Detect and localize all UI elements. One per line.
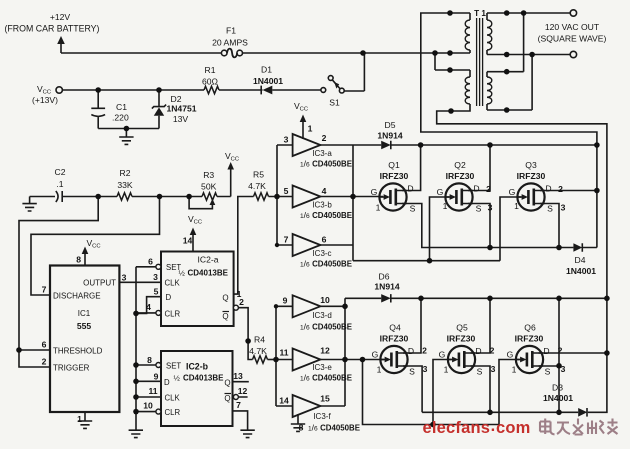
svg-text:CLR: CLR: [165, 310, 181, 319]
svg-text:15: 15: [320, 394, 330, 404]
svg-text:½: ½: [174, 374, 181, 383]
svg-text:33K: 33K: [117, 180, 133, 190]
svg-text:14: 14: [279, 396, 289, 406]
svg-text:D2: D2: [171, 94, 182, 104]
svg-text:IRFZ30: IRFZ30: [380, 334, 409, 344]
svg-text:TRIGGER: TRIGGER: [53, 364, 90, 373]
svg-text:14: 14: [183, 236, 193, 246]
svg-text:IC2-a: IC2-a: [197, 255, 218, 265]
svg-text:D1: D1: [261, 65, 272, 75]
svg-text:IC3-f: IC3-f: [313, 412, 331, 421]
svg-text:120 VAC OUT: 120 VAC OUT: [545, 22, 600, 32]
svg-text:1: 1: [376, 203, 381, 213]
svg-text:SET: SET: [166, 362, 181, 371]
svg-text:1N4751: 1N4751: [166, 104, 196, 114]
svg-text:6: 6: [148, 257, 153, 267]
svg-text:THRESHOLD: THRESHOLD: [53, 347, 103, 356]
svg-text:CD4013BE: CD4013BE: [188, 269, 229, 278]
svg-text:.1: .1: [56, 179, 63, 189]
svg-text:2: 2: [422, 346, 427, 356]
svg-text:D: D: [166, 293, 172, 302]
svg-text:4: 4: [322, 186, 327, 196]
svg-text:S: S: [547, 204, 553, 214]
svg-text:4.7K: 4.7K: [249, 346, 267, 356]
svg-text:1: 1: [77, 414, 82, 424]
svg-text:IC3-c: IC3-c: [312, 249, 331, 258]
svg-text:2: 2: [322, 133, 327, 143]
svg-text:S1: S1: [329, 98, 340, 108]
svg-text:D: D: [473, 184, 479, 194]
svg-text:.220: .220: [112, 113, 129, 123]
svg-text:1: 1: [512, 365, 517, 375]
svg-text:5: 5: [154, 287, 159, 297]
svg-text:D5: D5: [385, 120, 396, 130]
svg-text:3: 3: [561, 364, 566, 374]
svg-text:R2: R2: [120, 168, 131, 178]
svg-text:S: S: [410, 204, 416, 214]
svg-text:1N914: 1N914: [377, 131, 403, 141]
svg-text:20 AMPS: 20 AMPS: [212, 38, 248, 48]
svg-text:IC3-d: IC3-d: [312, 311, 332, 320]
svg-text:Q4: Q4: [389, 323, 401, 333]
svg-text:D: D: [475, 346, 481, 356]
svg-text:R4: R4: [254, 335, 265, 345]
svg-text:1: 1: [443, 201, 448, 211]
svg-text:OUTPUT: OUTPUT: [83, 279, 116, 288]
svg-text:2: 2: [42, 357, 47, 367]
svg-text:D3: D3: [552, 383, 563, 393]
svg-text:R1: R1: [205, 65, 216, 75]
svg-text:7: 7: [42, 285, 47, 295]
svg-text:13V: 13V: [173, 114, 189, 124]
svg-text:2: 2: [239, 297, 244, 307]
svg-text:G: G: [507, 350, 514, 360]
svg-text:6: 6: [322, 235, 327, 245]
svg-text:1: 1: [308, 124, 313, 134]
svg-text:R3: R3: [203, 170, 214, 180]
svg-text:Q3: Q3: [525, 160, 537, 170]
svg-text:1N4001: 1N4001: [253, 76, 283, 86]
svg-text:IRFZ30: IRFZ30: [446, 171, 475, 181]
svg-text:8: 8: [76, 255, 81, 265]
svg-text:CD4013BE: CD4013BE: [183, 374, 224, 383]
svg-text:50K: 50K: [201, 182, 217, 192]
svg-text:7: 7: [284, 235, 289, 245]
svg-text:5: 5: [284, 186, 289, 196]
svg-text:IC3-b: IC3-b: [312, 201, 332, 210]
svg-text:G: G: [372, 350, 379, 360]
svg-text:G: G: [437, 187, 444, 197]
svg-text:3: 3: [423, 364, 428, 374]
svg-text:60Ω: 60Ω: [202, 77, 219, 87]
svg-text:3: 3: [491, 364, 496, 374]
svg-text:Q: Q: [224, 394, 230, 403]
svg-text:IRFZ30: IRFZ30: [380, 171, 409, 181]
svg-text:3: 3: [284, 135, 289, 145]
svg-text:Q6: Q6: [524, 323, 536, 333]
svg-text:DISCHARGE: DISCHARGE: [53, 292, 101, 301]
svg-text:2: 2: [558, 184, 563, 194]
svg-text:Q: Q: [222, 294, 228, 303]
svg-text:4: 4: [146, 302, 151, 312]
svg-text:7: 7: [236, 400, 241, 410]
svg-text:R5: R5: [253, 170, 264, 180]
svg-text:Q: Q: [224, 379, 230, 388]
svg-text:10: 10: [320, 295, 330, 305]
svg-text:1N4001: 1N4001: [566, 266, 596, 276]
svg-text:IC3-e: IC3-e: [312, 363, 332, 372]
svg-text:½: ½: [179, 269, 186, 278]
svg-text:8: 8: [147, 355, 152, 365]
svg-text:C2: C2: [55, 167, 66, 177]
svg-text:(+13V): (+13V): [32, 95, 58, 105]
svg-text:+12V: +12V: [50, 12, 71, 22]
svg-text:G: G: [371, 187, 378, 197]
svg-text:CLR: CLR: [165, 408, 181, 417]
svg-text:3: 3: [561, 203, 566, 213]
svg-text:F1: F1: [226, 26, 236, 36]
svg-text:CLK: CLK: [165, 394, 181, 403]
svg-text:2: 2: [558, 346, 563, 356]
svg-text:T 1: T 1: [474, 9, 486, 18]
svg-text:6: 6: [42, 340, 47, 350]
svg-text:S: S: [545, 367, 551, 377]
svg-text:10: 10: [143, 401, 153, 411]
svg-text:D: D: [543, 346, 549, 356]
svg-text:9: 9: [283, 296, 288, 306]
svg-text:(SQUARE WAVE): (SQUARE WAVE): [538, 34, 607, 44]
svg-text:1: 1: [377, 365, 382, 375]
svg-text:4.7K: 4.7K: [248, 181, 266, 191]
svg-text:8: 8: [299, 423, 304, 433]
svg-text:D: D: [164, 378, 170, 387]
svg-text:1: 1: [444, 365, 449, 375]
svg-text:G: G: [439, 350, 446, 360]
svg-text:IC2-b: IC2-b: [186, 362, 209, 372]
svg-text:elecfans.com: elecfans.com: [423, 417, 531, 437]
svg-text:2: 2: [486, 184, 491, 194]
svg-text:D: D: [408, 346, 414, 356]
svg-text:555: 555: [77, 321, 92, 331]
svg-text:11: 11: [279, 348, 288, 358]
svg-text:3: 3: [122, 273, 127, 283]
svg-text:S: S: [476, 204, 482, 214]
svg-text:12: 12: [238, 386, 248, 396]
svg-text:3: 3: [153, 272, 158, 282]
svg-text:13: 13: [233, 371, 243, 381]
svg-text:Q2: Q2: [454, 160, 466, 170]
svg-text:D: D: [407, 184, 413, 194]
svg-text:D6: D6: [379, 272, 390, 282]
svg-text:D: D: [545, 184, 551, 194]
svg-text:S: S: [477, 367, 483, 377]
svg-text:D4: D4: [575, 255, 586, 265]
svg-text:IRFZ30: IRFZ30: [515, 334, 544, 344]
svg-text:9: 9: [154, 372, 159, 382]
svg-text:G: G: [509, 187, 516, 197]
svg-text:3: 3: [488, 203, 493, 213]
svg-text:12: 12: [320, 346, 330, 356]
svg-text:IRFZ30: IRFZ30: [517, 171, 546, 181]
svg-text:C1: C1: [116, 102, 127, 112]
svg-text:Q1: Q1: [388, 160, 400, 170]
svg-text:11: 11: [148, 386, 157, 396]
svg-text:IC3-a: IC3-a: [312, 149, 332, 158]
svg-text:(FROM CAR BATTERY): (FROM CAR BATTERY): [5, 24, 100, 34]
svg-text:2: 2: [490, 346, 495, 356]
svg-text:Q5: Q5: [456, 323, 468, 333]
svg-text:1N914: 1N914: [374, 282, 400, 292]
svg-text:Q: Q: [222, 312, 228, 321]
svg-text:IC1: IC1: [78, 309, 91, 318]
svg-text:1N4001: 1N4001: [543, 393, 573, 403]
svg-text:1: 1: [514, 201, 519, 211]
svg-text:CLK: CLK: [165, 279, 181, 288]
svg-text:IRFZ30: IRFZ30: [447, 334, 476, 344]
svg-text:S: S: [409, 367, 415, 377]
